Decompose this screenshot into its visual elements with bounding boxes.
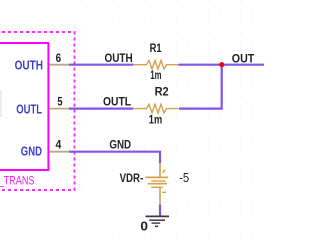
wire OUTL left <box>69 107 133 109</box>
svg-text:_TRANS: _TRANS <box>0 176 35 188</box>
wire battery to ground <box>159 205 161 216</box>
svg-text:R1: R1 <box>150 41 162 55</box>
pin stub 4 (tan) <box>49 151 68 153</box>
battery plate 2 <box>151 180 165 182</box>
ground symbol 0 <box>146 216 170 226</box>
gray bar at left edge <box>0 90 2 117</box>
resistor R1 <box>133 60 179 69</box>
svg-text:OUTH: OUTH <box>105 52 133 65</box>
battery top lead <box>159 163 161 177</box>
resistor R2 <box>133 104 179 113</box>
battery plate 4 <box>151 186 163 188</box>
wire OUTL right to junction riser <box>179 64 222 109</box>
ground bar 3 <box>152 222 161 224</box>
pin stub 5 (tan) <box>49 108 68 110</box>
junction dot <box>219 62 224 67</box>
wire GND to battery <box>69 152 160 164</box>
battery plus mark <box>163 170 166 173</box>
svg-text:VDR-: VDR- <box>120 171 144 185</box>
ground bar 1 <box>146 215 170 217</box>
pin stub 6 (tan) <box>49 64 68 66</box>
ground bar 4 <box>155 225 158 227</box>
wire OUTH right / OUT <box>179 64 265 66</box>
wire OUTH left <box>69 64 133 66</box>
svg-text:R2: R2 <box>155 85 169 99</box>
svg-text:0: 0 <box>140 220 148 234</box>
svg-text:GND: GND <box>109 139 131 152</box>
hierarchical block dashed boundary <box>0 32 75 190</box>
svg-text:OUTL: OUTL <box>16 103 42 117</box>
svg-text:-5: -5 <box>179 170 189 185</box>
svg-text:OUT: OUT <box>232 53 255 66</box>
svg-text:1m: 1m <box>149 114 162 126</box>
battery plate 3 <box>148 183 167 185</box>
svg-text:5: 5 <box>57 95 62 109</box>
battery plate 1 <box>145 176 168 178</box>
voltage source VDR- (battery) <box>145 163 168 198</box>
battery minus mark <box>162 191 166 193</box>
svg-text:OUTL: OUTL <box>103 96 131 109</box>
battery bottom lead <box>159 188 161 198</box>
svg-text:1m: 1m <box>150 70 161 82</box>
svg-text:GND: GND <box>21 145 42 159</box>
svg-text:4: 4 <box>56 138 62 152</box>
battery bottom lead lower (tan) <box>159 198 161 205</box>
part body box (magenta) <box>0 43 48 170</box>
svg-text:6: 6 <box>56 51 62 65</box>
ground bar 2 <box>149 219 165 221</box>
svg-text:OUTH: OUTH <box>15 59 43 73</box>
